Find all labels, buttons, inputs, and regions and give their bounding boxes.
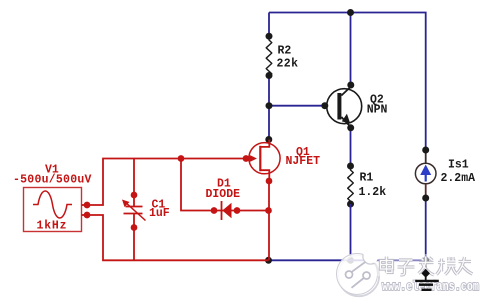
- voltage source V1: [13, 163, 92, 232]
- diode D1: [206, 178, 241, 220]
- node: Q2 collector terminal: [347, 82, 354, 89]
- node: Q2 emitter terminal: [347, 124, 354, 131]
- watermark chinese characters: [375, 254, 474, 276]
- wire: Q1 source down to bottom rail: [268, 181, 270, 260]
- transistor Q2: [327, 87, 388, 128]
- node: Q2 base terminal: [321, 102, 328, 109]
- wire: Q2 emitter down to R1: [350, 128, 352, 166]
- wire: R2 bottom to Q1 drain: [268, 76, 270, 140]
- resistor R2: [266, 36, 298, 76]
- node: D1 wire junction at Q1 source line: [265, 207, 272, 214]
- node: R2 bottom terminal: [266, 72, 273, 79]
- node: R1 to bottom rail junction: [347, 257, 354, 264]
- wire: left blue vertical from top rail to R2 top: [268, 13, 270, 37]
- wire: Q2 collector up to top rail: [350, 13, 352, 86]
- node: ground junction on bottom rail: [422, 257, 429, 264]
- node: R2 top terminal: [266, 33, 273, 40]
- transistor Q1: [246, 140, 320, 182]
- node: top rail junction at Q2 collector: [347, 9, 354, 16]
- svg-text:R1: R1: [360, 172, 374, 185]
- node: D1 anode terminal: [234, 207, 241, 214]
- node: bottom rail junction red/blue: [265, 257, 272, 264]
- capacitor C1: [122, 159, 170, 261]
- node: Q1 drain connection: [265, 136, 272, 143]
- svg-text:NJFET: NJFET: [286, 155, 321, 168]
- svg-text:Is1: Is1: [448, 158, 469, 171]
- watermark logo circle: [337, 249, 380, 296]
- node: V1 minus terminal: [84, 212, 91, 219]
- svg-text:1uF: 1uF: [149, 207, 170, 220]
- wire: V1 minus terminal to bottom rail: [87, 215, 269, 260]
- node: C1 top terminal: [131, 192, 138, 199]
- svg-text:2.2mA: 2.2mA: [441, 172, 476, 185]
- node: Q1 source terminal: [266, 178, 273, 185]
- wire: bottom blue rail: [269, 259, 426, 261]
- node: Is1 top terminal: [422, 147, 429, 154]
- wire: base wire from left vertical to Q2: [269, 105, 328, 107]
- node: R1 top terminal: [347, 163, 354, 170]
- node: D1 cathode terminal: [211, 207, 218, 214]
- wire: V1 plus terminal to gate rail: [87, 159, 246, 206]
- node: R1 bottom terminal: [347, 201, 354, 208]
- svg-text:-500u/500uV: -500u/500uV: [13, 174, 92, 187]
- wire: R1 bottom to bottom rail: [350, 204, 352, 260]
- svg-text:R2: R2: [278, 45, 292, 58]
- node: C1 bottom terminal: [131, 224, 138, 231]
- node: Q1 gate terminal: [243, 155, 250, 162]
- wire: top supply rail and right vertical down to Is1: [269, 13, 426, 151]
- wire: ground stub: [425, 260, 427, 270]
- ground: [415, 269, 439, 290]
- svg-text:1.2k: 1.2k: [359, 186, 387, 199]
- node: gate rail junction at D1 branch: [178, 155, 185, 162]
- resistor R1: [348, 166, 387, 206]
- svg-text:DIODE: DIODE: [206, 188, 241, 201]
- svg-text:1kHz: 1kHz: [37, 219, 68, 232]
- svg-text:22k: 22k: [277, 57, 299, 70]
- svg-text:NPN: NPN: [367, 104, 388, 117]
- wire: D1 branch from gate rail down and across: [181, 159, 269, 211]
- node: V1 plus terminal: [84, 202, 91, 209]
- node: Is1 bottom terminal: [422, 195, 429, 202]
- node: base wire junction on left vertical: [266, 102, 273, 109]
- current source Is1: [415, 150, 475, 260]
